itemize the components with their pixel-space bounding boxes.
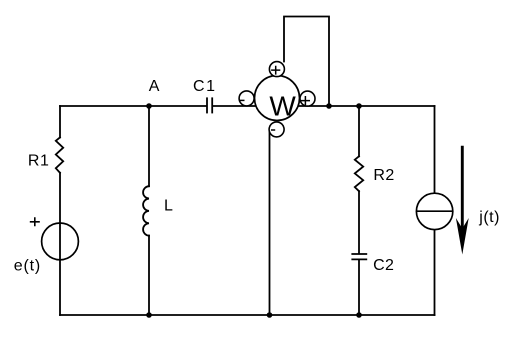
voltage source e(t) — [42, 223, 79, 260]
wire wattmeter voltage loop — [284, 17, 329, 107]
capacitor C2 plate bottom — [352, 258, 366, 260]
capacitor C1 plate left — [206, 98, 208, 112]
svg-text:W: W — [269, 91, 296, 122]
wire left branch top — [59, 106, 61, 137]
wire R2 branch top — [358, 106, 360, 156]
node A — [146, 103, 152, 109]
wire wattmeter bottom terminal to bottom — [269, 131, 271, 315]
resistor R1 — [56, 137, 63, 172]
wire C2 to bottom — [358, 260, 360, 315]
current direction arrow shaft — [461, 146, 464, 236]
node junction wattmeter bottom — [267, 312, 273, 318]
minus sign left terminal — [240, 99, 245, 101]
wattmeter terminal bottom — [269, 122, 284, 137]
capacitor C2 plate top — [352, 253, 366, 255]
svg-text:A: A — [149, 78, 160, 95]
plus sign of e(t) — [30, 217, 40, 226]
wire node A to inductor — [148, 106, 150, 186]
resistor R2 — [355, 156, 363, 191]
wire left branch bottom — [59, 173, 61, 315]
wattmeter terminal right — [300, 91, 315, 106]
capacitor C1 plate right — [211, 98, 213, 112]
node junction wattmeter loop — [326, 103, 332, 109]
wire R2 to C2 — [358, 191, 360, 253]
minus sign bottom terminal — [271, 129, 275, 131]
svg-text:j(t): j(t) — [478, 209, 500, 226]
wire bottom — [60, 314, 435, 316]
wire current source branch — [434, 106, 436, 315]
node junction L bottom — [146, 312, 152, 318]
svg-text:L: L — [164, 198, 173, 215]
wire top right segment — [213, 105, 434, 107]
wattmeter U1 body — [255, 76, 300, 121]
svg-text:C1: C1 — [193, 78, 217, 95]
wattmeter terminal top — [269, 62, 284, 77]
inductor L — [143, 186, 149, 235]
wire top left segment — [60, 105, 206, 107]
svg-text:R1: R1 — [28, 153, 49, 170]
plus sign top terminal — [271, 66, 280, 75]
node junction R2 top — [356, 103, 362, 109]
wattmeter terminal left — [239, 91, 254, 106]
current direction arrow head — [456, 218, 469, 255]
svg-text:R2: R2 — [373, 167, 394, 184]
svg-text:C2: C2 — [373, 257, 394, 274]
node junction C2 bottom — [356, 312, 362, 318]
current source chord — [416, 210, 452, 212]
svg-text:e(t): e(t) — [14, 258, 41, 275]
plus sign right terminal — [301, 96, 310, 105]
current source j(t) body — [416, 193, 452, 229]
wire inductor to bottom — [148, 236, 150, 315]
